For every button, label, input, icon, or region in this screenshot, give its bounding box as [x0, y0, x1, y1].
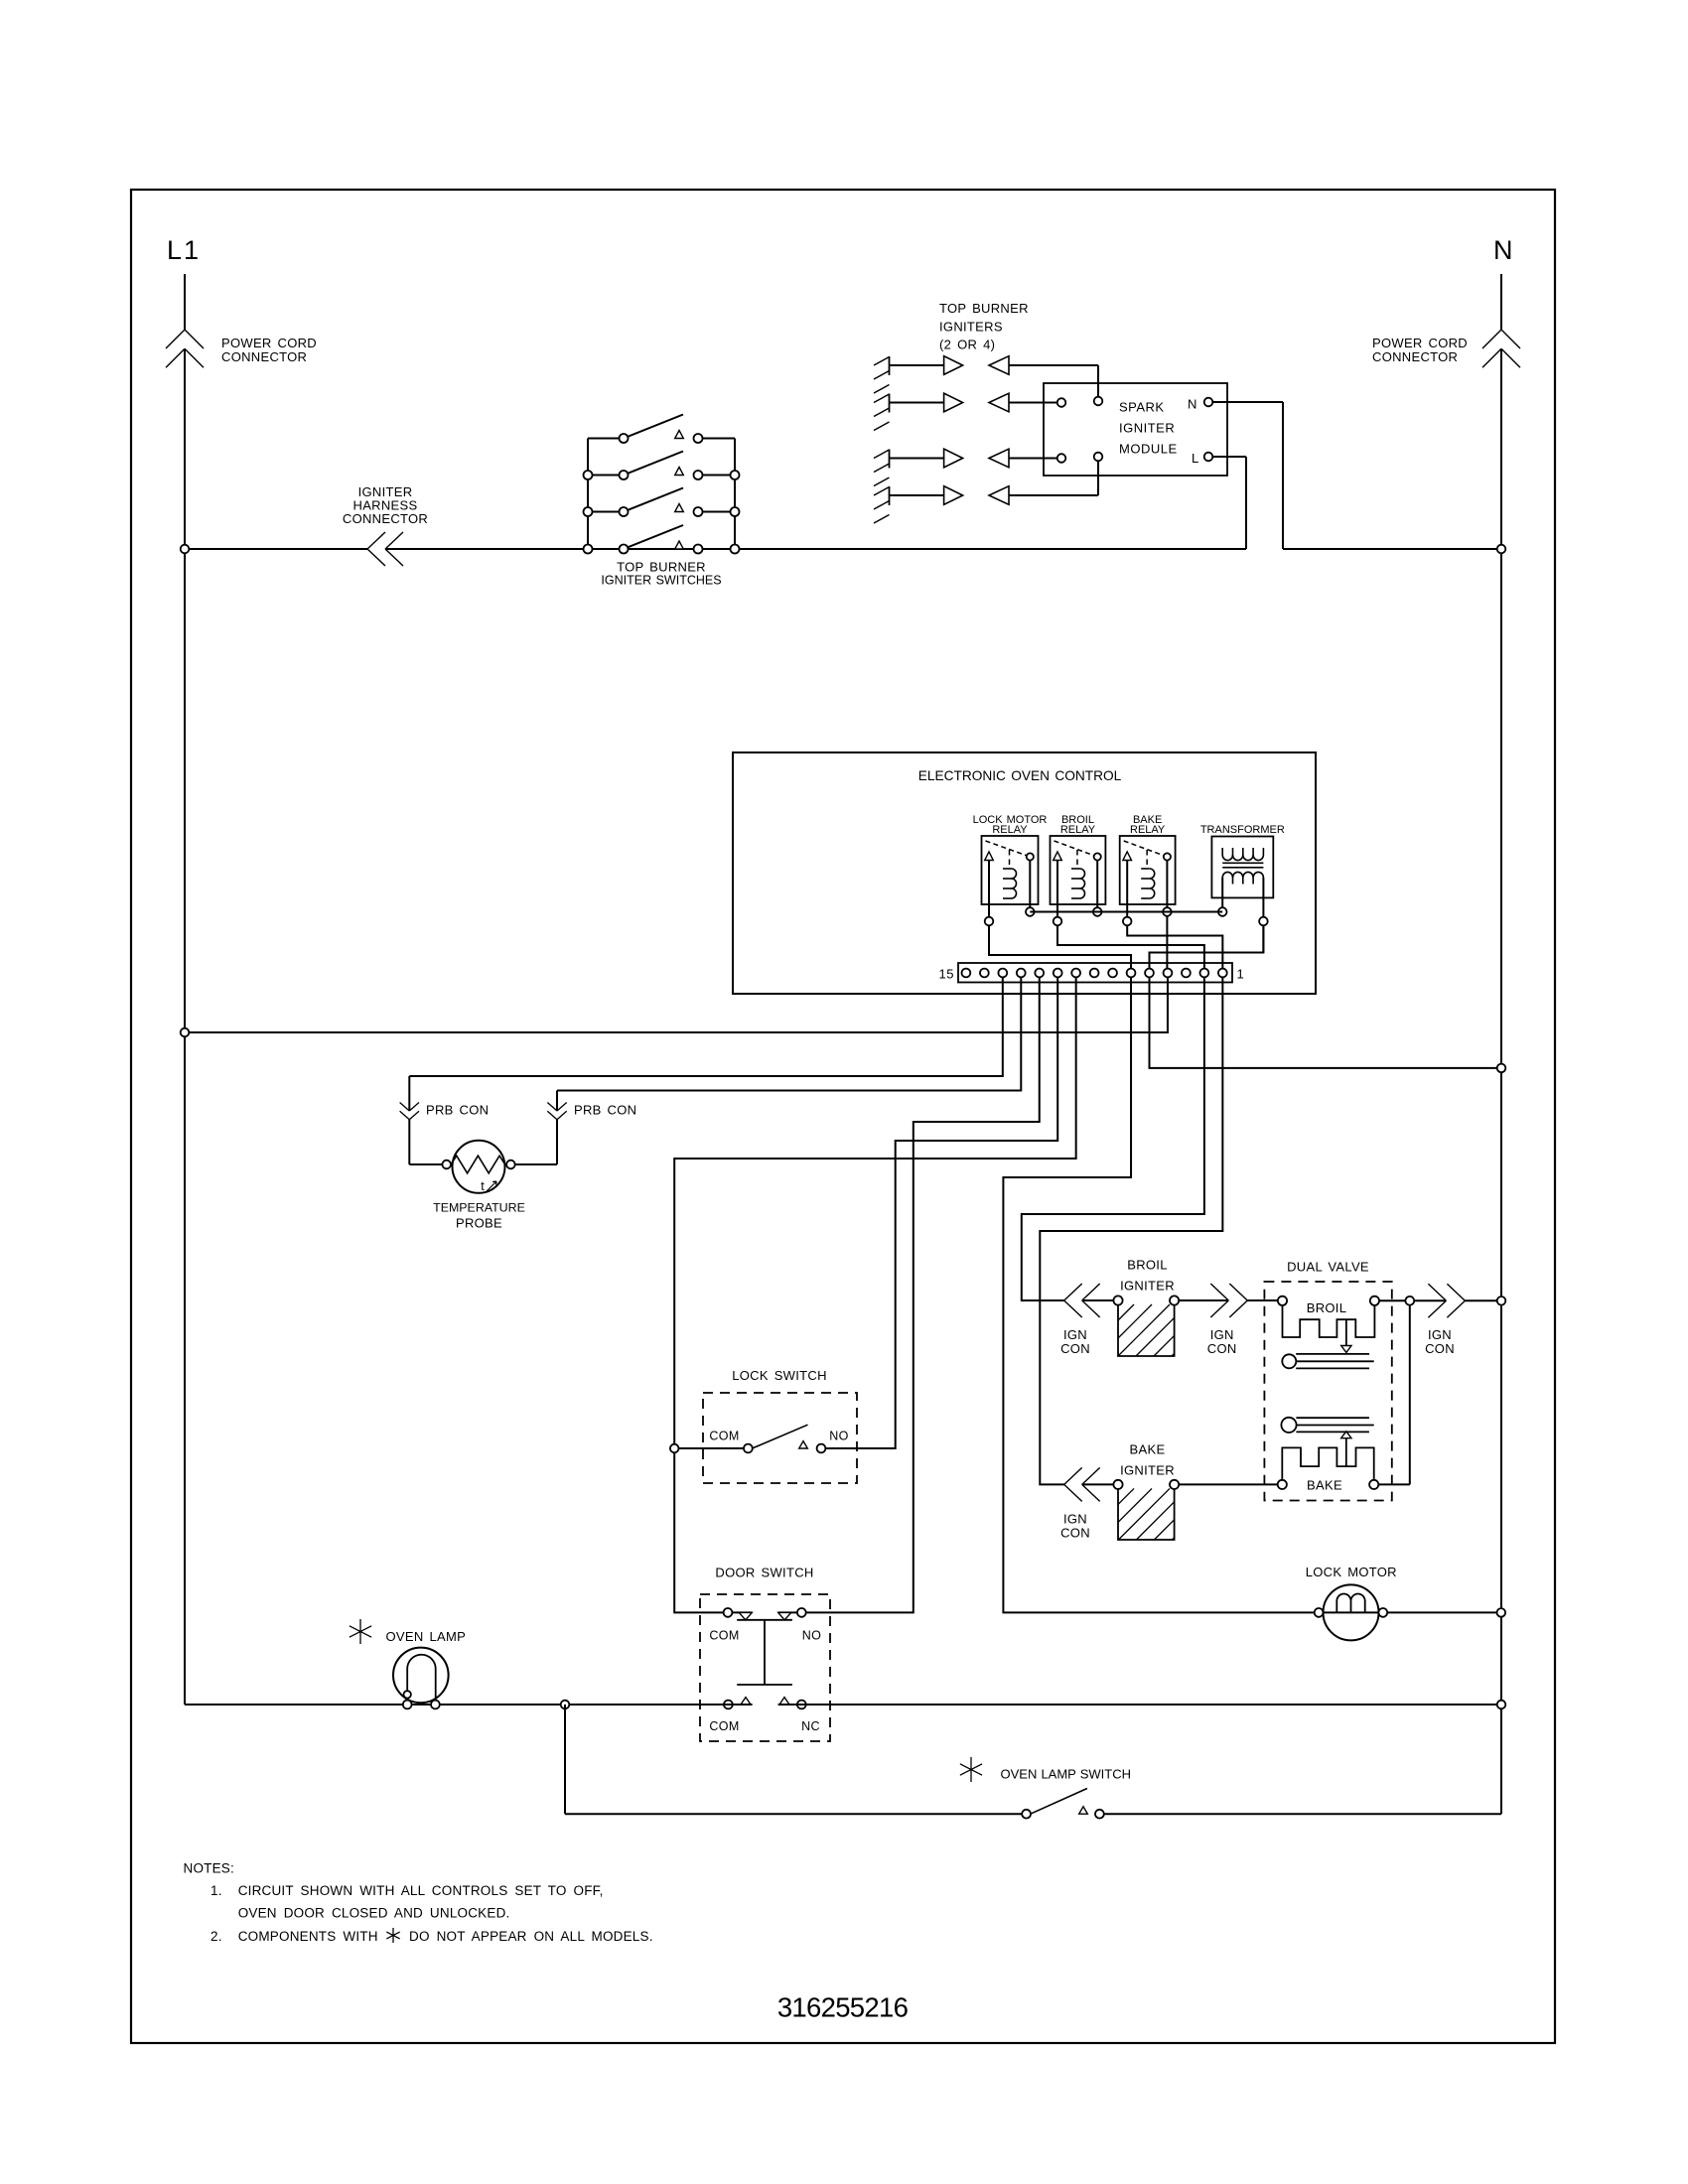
svg-text:L1: L1	[167, 235, 201, 265]
svg-text:COM: COM	[709, 1430, 739, 1443]
svg-text:N: N	[1493, 235, 1513, 265]
svg-text:L: L	[1192, 451, 1199, 466]
svg-text:LOCK SWITCH: LOCK SWITCH	[732, 1368, 827, 1383]
svg-text:(2 OR 4): (2 OR 4)	[939, 338, 995, 352]
svg-text:NO: NO	[829, 1430, 849, 1443]
svg-text:NOTES:: NOTES:	[184, 1861, 234, 1876]
svg-text:IGNITER: IGNITER	[1119, 421, 1175, 436]
svg-text:COMPONENTS WITH: COMPONENTS WITH	[238, 1929, 378, 1944]
svg-text:BROIL: BROIL	[1127, 1258, 1168, 1273]
svg-text:CON: CON	[1060, 1526, 1090, 1541]
svg-text:POWER CORD: POWER CORD	[221, 336, 317, 350]
svg-text:1.: 1.	[211, 1883, 222, 1898]
svg-text:IGNITER: IGNITER	[1120, 1463, 1175, 1478]
svg-text:316255216: 316255216	[777, 1992, 909, 2023]
svg-text:N: N	[1188, 397, 1197, 412]
svg-text:CON: CON	[1425, 1341, 1455, 1356]
svg-text:1: 1	[1237, 967, 1245, 982]
svg-text:t: t	[481, 1179, 485, 1193]
svg-text:CONNECTOR: CONNECTOR	[221, 349, 307, 364]
svg-text:COM: COM	[709, 1629, 739, 1643]
svg-text:IGN: IGN	[1063, 1512, 1087, 1527]
svg-text:DO NOT APPEAR ON ALL MODELS.: DO NOT APPEAR ON ALL MODELS.	[409, 1929, 653, 1944]
svg-text:RELAY: RELAY	[1130, 824, 1166, 836]
svg-text:POWER CORD: POWER CORD	[1372, 336, 1468, 350]
svg-text:OVEN DOOR CLOSED AND UNLOCKED.: OVEN DOOR CLOSED AND UNLOCKED.	[238, 1906, 510, 1921]
svg-text:DOOR SWITCH: DOOR SWITCH	[715, 1566, 813, 1580]
svg-text:2.: 2.	[211, 1929, 222, 1944]
svg-text:BAKE: BAKE	[1307, 1478, 1342, 1493]
svg-text:RELAY: RELAY	[1060, 824, 1096, 836]
svg-text:TOP BURNER: TOP BURNER	[939, 301, 1029, 316]
svg-text:COM: COM	[709, 1719, 739, 1733]
svg-text:DUAL VALVE: DUAL VALVE	[1287, 1260, 1369, 1275]
svg-text:IGN: IGN	[1063, 1327, 1087, 1342]
svg-text:CON: CON	[1207, 1341, 1237, 1356]
svg-text:15: 15	[939, 967, 954, 982]
svg-text:IGNITER SWITCHES: IGNITER SWITCHES	[601, 574, 721, 588]
svg-text:BAKE: BAKE	[1130, 1442, 1166, 1457]
svg-text:IGN: IGN	[1428, 1327, 1452, 1342]
svg-text:PRB CON: PRB CON	[574, 1103, 636, 1118]
svg-text:IGN: IGN	[1210, 1327, 1234, 1342]
svg-text:TOP BURNER: TOP BURNER	[617, 560, 706, 575]
svg-text:BROIL: BROIL	[1307, 1300, 1347, 1315]
svg-text:TEMPERATURE: TEMPERATURE	[433, 1201, 525, 1215]
svg-text:LOCK MOTOR: LOCK MOTOR	[1306, 1565, 1397, 1579]
svg-text:CONNECTOR: CONNECTOR	[1372, 349, 1458, 364]
svg-text:NO: NO	[802, 1629, 822, 1643]
svg-text:CONNECTOR: CONNECTOR	[343, 511, 428, 526]
svg-text:OVEN LAMP SWITCH: OVEN LAMP SWITCH	[1001, 1767, 1132, 1782]
svg-text:IGNITERS: IGNITERS	[939, 320, 1003, 335]
svg-text:NC: NC	[801, 1719, 820, 1733]
svg-text:SPARK: SPARK	[1119, 400, 1165, 415]
svg-text:OVEN LAMP: OVEN LAMP	[386, 1629, 467, 1644]
svg-text:MODULE: MODULE	[1119, 442, 1178, 457]
svg-text:PRB CON: PRB CON	[426, 1103, 489, 1118]
svg-text:PROBE: PROBE	[456, 1216, 502, 1231]
svg-text:CON: CON	[1060, 1341, 1090, 1356]
svg-text:CIRCUIT SHOWN WITH ALL CONTROL: CIRCUIT SHOWN WITH ALL CONTROLS SET TO O…	[238, 1883, 604, 1898]
svg-text:ELECTRONIC OVEN CONTROL: ELECTRONIC OVEN CONTROL	[918, 768, 1122, 783]
svg-text:IGNITER: IGNITER	[1120, 1279, 1175, 1294]
svg-text:RELAY: RELAY	[992, 824, 1028, 836]
svg-text:TRANSFORMER: TRANSFORMER	[1200, 824, 1285, 836]
